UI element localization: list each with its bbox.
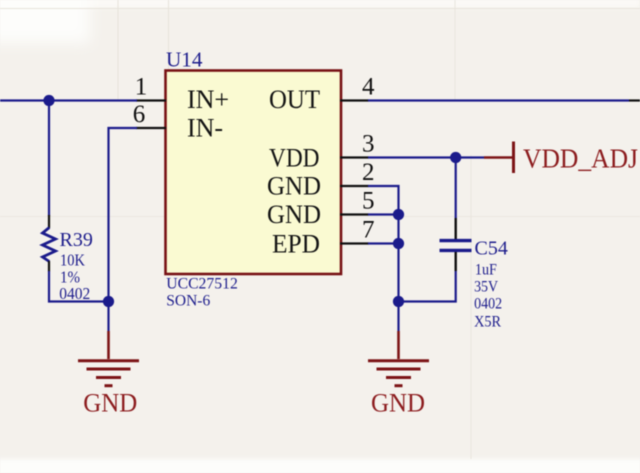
pin 2 GND xyxy=(267,159,375,201)
ground symbol left xyxy=(78,361,139,386)
svg-text:VDD_ADJ: VDD_ADJ xyxy=(523,144,638,174)
svg-text:4: 4 xyxy=(362,74,375,101)
svg-text:GND: GND xyxy=(267,200,321,229)
svg-text:6: 6 xyxy=(133,101,146,128)
wire IN+ net horizontal xyxy=(0,99,137,101)
svg-text:1uF: 1uF xyxy=(475,261,497,278)
svg-text:GND: GND xyxy=(83,389,137,418)
pin 7 EPD xyxy=(272,217,375,259)
svg-text:3: 3 xyxy=(362,131,375,158)
svg-text:IN+: IN+ xyxy=(187,85,229,114)
wire pin5 stub xyxy=(368,213,399,215)
svg-text:7: 7 xyxy=(362,217,375,244)
svg-text:C54: C54 xyxy=(475,237,508,259)
wire C54 bottom to GND rail xyxy=(399,271,456,302)
svg-text:R39: R39 xyxy=(60,229,93,251)
pin 6 IN- xyxy=(133,101,223,143)
svg-text:1: 1 xyxy=(135,74,148,101)
svg-text:U14: U14 xyxy=(166,48,203,72)
wire pin7 stub xyxy=(368,242,399,244)
wire junction down to R39 xyxy=(48,101,50,217)
wire pin2 to GND rail xyxy=(368,186,399,302)
pin 4 OUT xyxy=(269,74,375,115)
junction pin5 xyxy=(393,209,404,220)
svg-text:5: 5 xyxy=(362,188,375,215)
power port VDD_ADJ xyxy=(484,142,638,174)
pin stub at right edge xyxy=(629,99,640,101)
ground symbol right xyxy=(368,361,429,386)
svg-text:GND: GND xyxy=(267,172,321,201)
svg-text:SON-6: SON-6 xyxy=(166,293,210,310)
wire stub to left ground xyxy=(107,302,109,332)
pin 3 VDD xyxy=(269,131,375,173)
wire VDD net xyxy=(368,156,484,158)
ground lead left xyxy=(107,331,110,359)
pin 5 GND xyxy=(267,188,375,230)
svg-text:IN-: IN- xyxy=(187,114,223,143)
svg-text:0402: 0402 xyxy=(59,284,90,303)
pin 1 IN+ xyxy=(135,74,229,115)
wire OUT net xyxy=(368,99,629,101)
svg-text:EPD: EPD xyxy=(272,230,320,259)
junction at IN+ net xyxy=(43,95,54,106)
svg-text:GND: GND xyxy=(371,389,425,418)
junction right GND node xyxy=(393,296,404,307)
svg-text:35V: 35V xyxy=(474,278,498,295)
svg-text:0402: 0402 xyxy=(474,296,502,313)
resistor R39 xyxy=(43,215,56,272)
capacitor C54 xyxy=(440,218,472,271)
wire VDD junction down to C54 xyxy=(455,158,457,219)
svg-text:VDD: VDD xyxy=(269,144,320,173)
IC U14 body xyxy=(166,71,342,275)
wire R39 bottom to GND node xyxy=(49,271,109,302)
svg-text:X5R: X5R xyxy=(474,314,501,331)
junction left GND node xyxy=(103,296,114,307)
junction VDD net xyxy=(450,152,461,163)
svg-text:UCC27512: UCC27512 xyxy=(166,276,238,293)
svg-text:OUT: OUT xyxy=(269,85,320,114)
junction pin7 xyxy=(393,238,404,249)
wire stub to right ground xyxy=(397,302,399,332)
wire IN- vertical xyxy=(109,128,138,302)
svg-text:2: 2 xyxy=(362,159,375,186)
ground lead right xyxy=(397,331,400,359)
